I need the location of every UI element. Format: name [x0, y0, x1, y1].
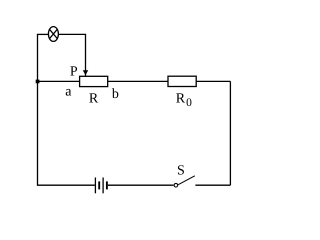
wire R0 to top-right corner	[196, 80, 230, 82]
battery	[95, 178, 107, 194]
wire switch to battery	[108, 184, 174, 186]
potentiometer R body	[80, 76, 108, 86]
svg-text:P: P	[70, 64, 78, 79]
wire right vertical	[229, 81, 231, 185]
switch S blade	[178, 176, 195, 185]
svg-text:a: a	[65, 84, 72, 99]
node junction (left)	[36, 80, 40, 84]
wire bottom-right to switch	[195, 184, 230, 186]
battery short plate 1	[98, 181, 100, 189]
svg-text:R: R	[89, 91, 99, 106]
wire lamp to top-right corner	[59, 33, 86, 35]
wire potentiometer to resistor R0	[108, 80, 168, 82]
battery long plate 1	[94, 178, 96, 194]
battery long plate 2	[102, 178, 104, 194]
battery short plate 2	[106, 181, 108, 189]
wire battery to bottom-left corner	[37, 184, 95, 186]
wire junction to potentiometer	[38, 80, 80, 82]
svg-text:b: b	[112, 87, 119, 102]
svg-text:R: R	[176, 91, 186, 106]
wire left vertical	[37, 34, 39, 185]
svg-text:0: 0	[186, 97, 192, 109]
lamp (circle with cross)	[48, 27, 58, 42]
switch S pivot circle	[174, 183, 178, 187]
wire top-left to lamp	[37, 33, 48, 35]
arrowhead of slider P	[83, 70, 88, 75]
resistor R0 body	[168, 76, 196, 86]
svg-text:S: S	[177, 163, 185, 178]
wire slider drop	[85, 34, 87, 76]
